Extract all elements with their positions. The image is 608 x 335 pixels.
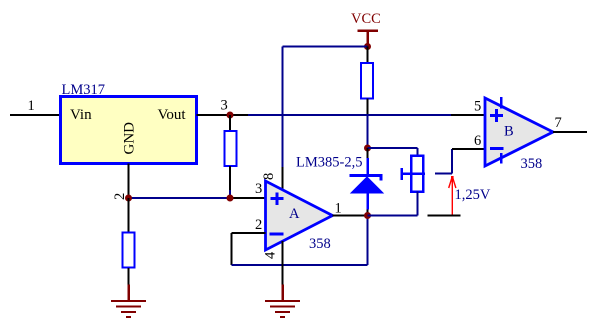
power VCC symbol xyxy=(351,11,381,47)
wire net Vout bus to op-amp B pin 5 xyxy=(248,114,451,116)
wire node to potentiometer top xyxy=(368,147,418,149)
svg-text:Vin: Vin xyxy=(70,107,92,123)
svg-text:358: 358 xyxy=(309,236,331,252)
svg-text:1,25V: 1,25V xyxy=(455,187,491,203)
junction node 3 xyxy=(227,112,234,119)
wire vertical to pin 8 xyxy=(282,47,284,168)
wire node to pot bottom xyxy=(368,215,418,217)
wire feedback right vertical xyxy=(367,216,369,266)
wire pin 8 stub xyxy=(282,167,284,191)
svg-text:3: 3 xyxy=(221,98,228,114)
op-amp B plus xyxy=(490,109,503,122)
svg-text:VCC: VCC xyxy=(351,11,381,27)
svg-text:1: 1 xyxy=(28,98,35,114)
wire pin 5 stub xyxy=(451,114,485,116)
potentiometer R4 xyxy=(402,156,426,192)
wire op-amp A output pin 1 xyxy=(333,215,368,217)
resistor R3 xyxy=(123,233,135,268)
svg-text:4: 4 xyxy=(263,251,279,259)
svg-text:A: A xyxy=(289,206,300,222)
svg-text:B: B xyxy=(504,124,514,140)
wire resistor R2 bottom lead xyxy=(229,166,231,190)
svg-text:3: 3 xyxy=(255,181,262,197)
wire op-amp B output pin 7 xyxy=(553,131,587,133)
svg-text:5: 5 xyxy=(474,99,481,115)
annotation arrow 1,25V xyxy=(449,176,456,215)
wire pin 3 stub op-amp A xyxy=(230,197,266,199)
junction node2/R2 xyxy=(227,195,234,202)
ground symbol left xyxy=(111,285,146,318)
wire resistor R1 bottom lead xyxy=(367,99,369,115)
wire pot bottom lead xyxy=(417,192,419,216)
wire resistor R1 top lead xyxy=(367,47,369,64)
wire pot wiper to pin 6 xyxy=(435,173,452,175)
svg-text:2: 2 xyxy=(255,217,262,233)
svg-text:1: 1 xyxy=(335,201,342,217)
wire VCC horizontal to op-amp A pin 8 xyxy=(283,46,368,48)
wire pin 2 stub xyxy=(232,232,266,234)
wire pin 6 stub xyxy=(452,148,485,150)
wire feedback bottom bus xyxy=(232,264,368,266)
op-amp B power ticks xyxy=(500,97,503,164)
op-amp A body xyxy=(266,181,333,250)
svg-text:7: 7 xyxy=(555,115,562,131)
op-amp B body xyxy=(485,98,553,166)
ground symbol middle xyxy=(265,285,300,318)
op-amp A minus xyxy=(270,232,284,235)
wire feedback left vertical xyxy=(231,233,233,265)
wire Vout pin xyxy=(197,114,249,116)
annotation reference baseline xyxy=(428,215,461,217)
svg-text:8: 8 xyxy=(261,173,277,180)
wire resistor R2 top lead xyxy=(229,115,231,131)
junction node 2 xyxy=(125,195,132,202)
junction diode top node xyxy=(364,145,371,152)
svg-text:LM317: LM317 xyxy=(62,82,106,98)
regulator LM317 body xyxy=(61,97,197,164)
junction node output A xyxy=(364,212,371,219)
svg-text:Vout: Vout xyxy=(158,107,187,123)
wire resistor R3 top lead xyxy=(128,198,130,233)
wire pin 4 stub xyxy=(282,241,284,285)
wire input net 1 xyxy=(10,114,61,116)
svg-text:GND: GND xyxy=(122,122,138,155)
wire resistor R3 bottom lead xyxy=(128,268,130,285)
zener diode LM385-2,5 xyxy=(350,148,384,216)
resistor R1 xyxy=(361,63,373,99)
op-amp B minus xyxy=(490,147,504,150)
wire GND pin of LM317 xyxy=(128,164,130,199)
svg-text:358: 358 xyxy=(521,156,543,172)
junction VCC node xyxy=(364,43,371,50)
svg-text:LM385-2,5: LM385-2,5 xyxy=(296,155,362,171)
op-amp A plus xyxy=(271,193,284,206)
svg-text:6: 6 xyxy=(474,133,481,149)
wire net node2 horizontal xyxy=(129,197,231,199)
resistor R2 xyxy=(225,131,237,166)
